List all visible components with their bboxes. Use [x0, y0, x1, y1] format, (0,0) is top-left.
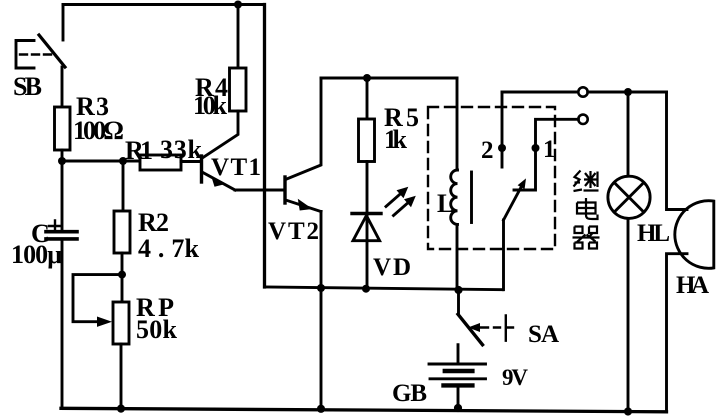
wire HL bottom lead [627, 218, 630, 411]
wire SB lower lead [61, 67, 64, 107]
resistor R4 body [230, 68, 247, 111]
svg-text:VD: VD [373, 254, 411, 281]
switch SB dashed link [20, 53, 52, 55]
resistor R2 body [114, 211, 130, 253]
svg-text:SB: SB [13, 72, 42, 101]
transistor VT1 emitter arrow [211, 176, 225, 187]
svg-text:2: 2 [481, 137, 494, 164]
diode VD light arrow 2 [394, 201, 411, 216]
resistor R1 body [140, 155, 181, 170]
svg-text:L: L [437, 189, 454, 218]
wire R5 to VD to rail [366, 162, 369, 289]
node contact 1 [532, 144, 540, 152]
switch SB blade [39, 35, 65, 67]
wire R2 top lead [122, 161, 125, 211]
svg-text:SA: SA [528, 321, 559, 348]
node junction emitter bottom [317, 405, 325, 413]
transistor VT2 base bar [283, 177, 286, 203]
transistor VT2 emitter arrow [298, 199, 313, 211]
lamp HL circle [608, 176, 650, 218]
wire HL top lead [627, 92, 630, 176]
wire RP bottom lead [120, 344, 123, 409]
svg-text:1: 1 [543, 136, 556, 163]
wire R1 to VT1 base [181, 160, 200, 163]
svg-text:GB: GB [392, 380, 427, 407]
wire R2 to RP [121, 253, 124, 302]
lamp HL cross [614, 183, 644, 213]
inductor L core bar [470, 172, 473, 223]
terminal circle lower [578, 115, 587, 124]
potentiometer RP body [113, 302, 129, 344]
node junction RP bottom [117, 405, 125, 413]
node contact 2 [498, 144, 506, 152]
wire VT1 emitter to VT2 base [235, 189, 284, 192]
transistor VT2 emitter [286, 200, 322, 212]
resistor R3 body [55, 107, 71, 150]
label relay char dian [577, 198, 598, 219]
capacitor C plates [46, 230, 77, 234]
diode VD cathode bar [352, 212, 381, 215]
wire R4 top lead [237, 5, 240, 69]
wire contact 1 lead [514, 119, 578, 190]
battery GB top lead [457, 345, 460, 364]
inductor L coil [451, 170, 458, 224]
wire right rail upper [667, 92, 688, 210]
transistor VT1 emitter [202, 172, 235, 190]
node junction VD bottom [362, 285, 370, 293]
wire relay top horizontal [502, 91, 578, 94]
switch SA tick [506, 315, 513, 340]
switch SB actuator bracket [16, 41, 34, 69]
svg-text:9V: 9V [502, 365, 528, 390]
svg-text:10k: 10k [193, 91, 228, 120]
diode VD light arrow 1 [386, 192, 403, 207]
svg-text:50k: 50k [136, 315, 178, 344]
wire R5 top lead [366, 78, 369, 119]
wire contact 2 vertical [501, 92, 504, 167]
svg-text:HL: HL [637, 220, 670, 247]
label relay char ji [574, 171, 599, 192]
wire SB upper lead [62, 5, 65, 41]
resistor R5 body [359, 119, 375, 162]
wire right rail lower [667, 254, 688, 412]
svg-text:1k: 1k [384, 125, 408, 154]
relay blade arrow [518, 178, 526, 189]
node junction R5 top [363, 74, 371, 82]
wire RP wiper loop [73, 275, 122, 322]
wire bottom rail [61, 408, 667, 412]
battery GB bottom lead [457, 387, 460, 408]
sounder HA body [675, 201, 714, 269]
wire top rail [63, 3, 265, 6]
wire coil top lead [456, 78, 459, 170]
node junction HL bottom [624, 407, 632, 415]
node junction emitter/rail cross [317, 284, 325, 292]
wire coil bottom lead [456, 224, 459, 290]
svg-text:R2: R2 [138, 208, 169, 237]
relay dashed box [428, 107, 555, 249]
diode VD triangle [353, 216, 380, 241]
node junction R2 branch [119, 157, 127, 165]
node junction battery bottom [454, 404, 462, 412]
wire VT2 emitter down to bottom rail [320, 212, 323, 409]
wire base node horizontal [62, 160, 140, 163]
transistor VT1 base bar [200, 156, 203, 182]
switch SA upper lead [457, 290, 460, 314]
battery GB plates [429, 363, 486, 366]
svg-text:4 . 7k: 4 . 7k [138, 234, 200, 263]
wire terminal to right rail [588, 91, 667, 94]
wire R3 bottom lead [61, 150, 64, 161]
svg-text:100Ω: 100Ω [73, 116, 124, 145]
wire left rail lower [61, 241, 64, 409]
switch SA dashed link [480, 326, 500, 328]
wire emitter rail horizontal [265, 287, 503, 290]
wire left rail upper (to capacitor) [61, 161, 64, 230]
RP wiper arrow [97, 317, 112, 327]
relay blade [504, 186, 523, 221]
wire relay common down [502, 220, 505, 290]
switch SA blade [458, 314, 483, 344]
svg-text:33k: 33k [160, 135, 203, 164]
svg-text:100μ: 100μ [11, 240, 62, 269]
node junction HL top [624, 88, 632, 96]
wire long vertical from top rail [263, 5, 266, 288]
node junction R3/base [58, 157, 66, 165]
node junction R4 top [234, 1, 242, 9]
node junction RP wiper tee [118, 271, 126, 279]
label relay char qi [573, 227, 600, 249]
terminal circle upper [578, 87, 587, 96]
wire collector rail y78 [321, 77, 457, 80]
svg-text:VT1: VT1 [211, 154, 261, 181]
svg-text:R1: R1 [125, 136, 153, 165]
svg-text:VT2: VT2 [268, 218, 319, 245]
capacitor C polarity plus [49, 221, 61, 232]
wire R4 bottom lead [203, 111, 238, 158]
node junction L/SA [454, 286, 462, 294]
svg-text:HA: HA [676, 272, 709, 299]
transistor VT2 collector [286, 78, 322, 180]
switch SA link arrow [468, 323, 480, 332]
